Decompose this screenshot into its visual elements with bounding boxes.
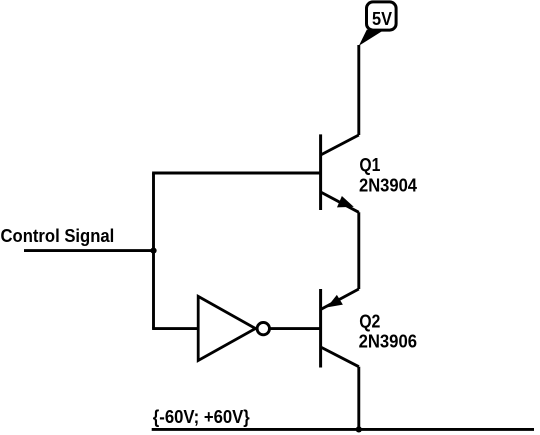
inverter U1 triangle [198,296,255,360]
wire control signal input [24,249,154,252]
transistor Q2 base bar [319,289,322,368]
wire Q1 emitter to Q2 emitter [357,212,360,289]
wire inverter output to Q2 base [270,327,321,330]
power supply 5V box [367,2,397,30]
svg-text:5V: 5V [372,9,392,29]
node junction control signal [150,248,156,254]
wire to Q1 base [152,172,321,175]
transistor Q2 emitter lead [321,289,359,310]
transistor Q1 emitter arrow [338,197,352,207]
wire vertical branch [152,173,155,329]
transistor Q1 emitter lead [321,192,359,212]
node junction at rail [356,426,362,432]
svg-text:2N3906: 2N3906 [359,332,417,352]
inverter U1 bubble [257,322,269,334]
svg-text:2N3904: 2N3904 [359,176,417,196]
transistor Q1 base bar [319,134,322,210]
power supply callout tail [359,30,383,46]
transistor Q2 emitter arrow [328,296,342,307]
wire 5V to Q1 collector [357,45,360,135]
bottom rail wire [152,428,534,431]
svg-text:Q1: Q1 [359,155,380,175]
svg-text:Control Signal: Control Signal [1,226,115,246]
transistor Q2 collector lead [321,347,359,367]
transistor Q1 collector lead [321,135,359,155]
svg-text:Q2: Q2 [359,311,380,331]
wire Q2 collector to bottom rail [357,367,360,430]
wire to inverter input [152,327,198,330]
svg-text:{-60V; +60V}: {-60V; +60V} [153,407,250,427]
